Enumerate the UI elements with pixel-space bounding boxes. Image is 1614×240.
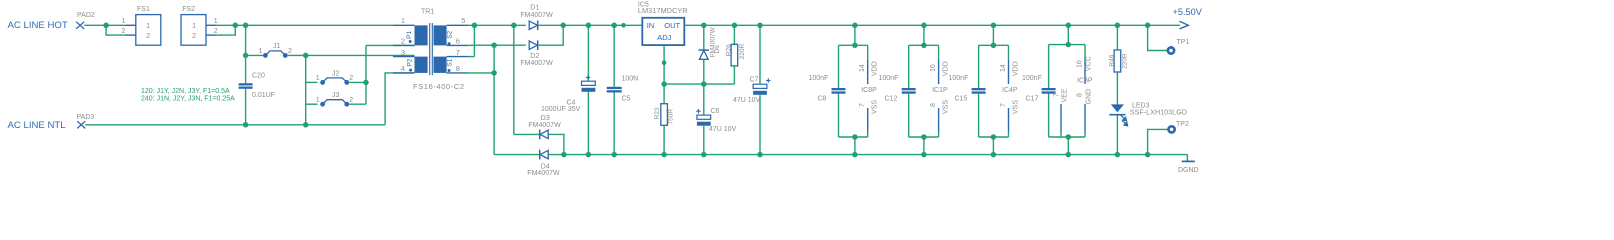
svg-text:FM4007W: FM4007W bbox=[520, 60, 553, 67]
junction node pin5/pin7 tie bbox=[472, 23, 478, 29]
wire C6 lower bbox=[703, 126, 705, 155]
wire R26 lower bbox=[733, 66, 735, 84]
svg-text:LM317MDCYR: LM317MDCYR bbox=[638, 6, 688, 15]
svg-text:TP1: TP1 bbox=[1177, 39, 1190, 46]
wire pin5 to D1 bbox=[468, 24, 526, 26]
diode D2 FM4007W bbox=[520, 40, 553, 67]
junction node D3/D4 gnd bbox=[561, 152, 567, 158]
jumper J2 bbox=[316, 70, 354, 84]
wire pin8 to AC2 bbox=[468, 72, 494, 74]
svg-text:16: 16 bbox=[930, 64, 937, 72]
wire J2 pin1 stub bbox=[306, 81, 318, 83]
svg-text:750R: 750R bbox=[667, 109, 674, 125]
wire D6 lower bbox=[703, 59, 705, 84]
wire D3 anode down bbox=[549, 134, 564, 154]
junction node C20 top bbox=[243, 23, 249, 29]
svg-text:SSF-LXH103LGD: SSF-LXH103LGD bbox=[1130, 107, 1187, 116]
svg-text:VCC: VCC bbox=[1086, 56, 1093, 71]
svg-text:100nF: 100nF bbox=[1022, 75, 1042, 82]
svg-text:0.01UF: 0.01UF bbox=[252, 92, 275, 99]
svg-text:TP2: TP2 bbox=[1176, 121, 1189, 128]
svg-text:+5.50V: +5.50V bbox=[1173, 7, 1203, 17]
resistor R26 220R bbox=[725, 43, 746, 65]
junction node C5 bottom bbox=[611, 152, 617, 158]
wire AC2 vertical bbox=[493, 45, 495, 154]
wire J1 pin2 to TR1 pin3 bbox=[288, 54, 415, 56]
svg-text:VSS: VSS bbox=[872, 100, 879, 114]
junction node TP2 tap bbox=[1145, 152, 1151, 158]
svg-text:220R: 220R bbox=[1121, 53, 1128, 69]
capacitor C4 1000UF 35V bbox=[541, 75, 595, 113]
svg-text:100nF: 100nF bbox=[949, 75, 969, 82]
svg-text:PAD2: PAD2 bbox=[77, 12, 95, 19]
wire C7 lower bbox=[759, 94, 761, 154]
junction node AC1 bbox=[511, 23, 517, 29]
capacitor C5 100N bbox=[607, 75, 639, 102]
svg-text:P1: P1 bbox=[406, 30, 413, 38]
junction node C7 top bbox=[757, 23, 763, 29]
wire vertical to NTL bbox=[305, 55, 307, 124]
wire R23 upper bbox=[663, 84, 665, 104]
svg-text:100N: 100N bbox=[622, 75, 639, 82]
diode D3 FM4007W bbox=[528, 115, 561, 139]
junction node C4 bottom bbox=[586, 152, 592, 158]
svg-text:GND: GND bbox=[1086, 89, 1093, 105]
svg-text:8: 8 bbox=[1076, 93, 1083, 97]
pad PAD3 bbox=[77, 114, 95, 128]
resistor R46 220R bbox=[1108, 50, 1128, 72]
svg-text:7: 7 bbox=[1000, 103, 1007, 107]
svg-text:C6: C6 bbox=[711, 108, 720, 115]
note 240V jumper configuration bbox=[141, 96, 235, 103]
wire TR1 pin2 row bbox=[366, 44, 415, 46]
svg-text:C17: C17 bbox=[1026, 96, 1039, 103]
svg-text:D6: D6 bbox=[714, 45, 721, 54]
wire R46 upper bbox=[1116, 25, 1118, 50]
svg-text:D2: D2 bbox=[530, 53, 539, 60]
capacitor C17 100nF with IC3P power pins bbox=[1022, 23, 1093, 158]
svg-text:PAD3: PAD3 bbox=[77, 114, 95, 121]
fuse holder FS2 bbox=[181, 6, 218, 45]
wire J2 pin2 stub bbox=[349, 81, 366, 83]
svg-text:FM4007W: FM4007W bbox=[520, 12, 553, 19]
svg-text:2: 2 bbox=[122, 28, 126, 35]
junction node NTL vertical bbox=[303, 122, 309, 128]
junction node at FS1 pin1 bbox=[103, 23, 109, 29]
svg-text:2: 2 bbox=[146, 31, 150, 40]
svg-text:1: 1 bbox=[122, 18, 126, 25]
junction node J1 feed bbox=[243, 53, 249, 59]
svg-text:100nF: 100nF bbox=[809, 75, 829, 82]
svg-text:14: 14 bbox=[1000, 64, 1007, 72]
wire D6 upper bbox=[703, 25, 705, 50]
svg-text:7: 7 bbox=[1053, 93, 1060, 97]
wire C20 upper bbox=[245, 25, 247, 83]
pad PAD2 bbox=[76, 12, 95, 29]
wire LED to gnd bbox=[1116, 116, 1118, 155]
wire C4 lower bbox=[587, 91, 589, 154]
svg-text:DGND: DGND bbox=[1178, 167, 1199, 174]
svg-text:FS16-400-C2: FS16-400-C2 bbox=[413, 82, 465, 91]
wire D4 left bbox=[494, 154, 540, 156]
svg-text:R23: R23 bbox=[654, 107, 661, 119]
junction node IC5 IN pin end bbox=[621, 23, 626, 28]
junction node D2 top bbox=[560, 23, 566, 29]
svg-text:C20: C20 bbox=[252, 72, 265, 79]
LED D LED3 SSF-LXH103LGD bbox=[1109, 103, 1187, 126]
junction node C6 gnd bbox=[701, 152, 707, 158]
svg-text:1: 1 bbox=[316, 97, 320, 104]
svg-text:1: 1 bbox=[401, 16, 405, 25]
svg-text:1: 1 bbox=[214, 18, 218, 25]
svg-text:C8: C8 bbox=[818, 96, 827, 103]
junction node LED gnd bbox=[1115, 152, 1121, 158]
svg-text:C15: C15 bbox=[955, 96, 968, 103]
svg-text:16: 16 bbox=[1076, 60, 1083, 68]
wire FS2 pin2 up to rail bbox=[216, 25, 235, 35]
svg-text:FS1: FS1 bbox=[137, 6, 150, 13]
wire C5 lower bbox=[613, 93, 615, 155]
wire C6 upper bbox=[703, 84, 705, 115]
svg-text:8: 8 bbox=[456, 64, 460, 73]
junction node D6 top bbox=[701, 23, 707, 29]
svg-text:IC3P: IC3P bbox=[1077, 78, 1093, 85]
wire TP1 bbox=[1148, 25, 1168, 50]
junction node ADJ/R23 bbox=[661, 81, 667, 87]
note 120V jumper configuration bbox=[141, 88, 230, 95]
svg-text:1: 1 bbox=[146, 21, 150, 30]
svg-text:1000UF 35V: 1000UF 35V bbox=[541, 106, 581, 113]
capacitor C7 47U 10V bbox=[733, 77, 771, 105]
svg-text:VEE: VEE bbox=[1062, 88, 1069, 102]
wire D1 cathode to plus rail bbox=[539, 24, 643, 26]
junction node C4 top bbox=[586, 23, 592, 29]
svg-text:7: 7 bbox=[456, 48, 460, 57]
svg-text:2: 2 bbox=[192, 31, 196, 40]
wire pin7 to tie bbox=[468, 56, 474, 58]
svg-text:C7: C7 bbox=[750, 77, 759, 84]
wire C20 lower bbox=[245, 89, 247, 125]
svg-text:2: 2 bbox=[288, 48, 292, 55]
wire AC NTL rail bbox=[85, 124, 385, 126]
svg-text:J1: J1 bbox=[273, 43, 281, 50]
wire ground rail bbox=[549, 154, 1188, 156]
svg-text:FM4007W: FM4007W bbox=[528, 122, 561, 129]
svg-text:4: 4 bbox=[401, 64, 405, 73]
power flag +5.50V bbox=[1173, 7, 1203, 29]
wire ADJ pin down bbox=[663, 45, 665, 84]
junction node IC5 ADJ pin end bbox=[662, 61, 667, 66]
svg-text:120: J1Y, J2N, J3Y, F1=0.5A: 120: J1Y, J2N, J3Y, F1=0.5A bbox=[141, 88, 230, 95]
ground DGND bbox=[1178, 161, 1199, 174]
wire gnd rail drop bbox=[1186, 155, 1188, 162]
junction node TP1 tap bbox=[1145, 23, 1151, 29]
svg-text:6: 6 bbox=[456, 37, 460, 46]
diode D4 FM4007W bbox=[527, 150, 560, 177]
wire D3 left bbox=[514, 133, 540, 135]
junction node R26 top bbox=[732, 23, 738, 29]
svg-text:2: 2 bbox=[401, 37, 405, 46]
junction node C7 gnd bbox=[757, 152, 763, 158]
wire FS1 pin2 feed bbox=[106, 25, 125, 35]
wire pin7 tie vertical bbox=[473, 25, 475, 56]
svg-text:2: 2 bbox=[214, 28, 218, 35]
transformer TR1 FS16-400-C2 bbox=[393, 9, 468, 92]
junction node R23 gnd bbox=[661, 152, 667, 158]
svg-text:VDD: VDD bbox=[1013, 61, 1020, 76]
wire ADJ row bbox=[664, 83, 734, 85]
wire C7 upper bbox=[759, 25, 761, 84]
svg-text:7: 7 bbox=[859, 103, 866, 107]
junction node pin3 row bbox=[303, 53, 309, 59]
svg-text:C12: C12 bbox=[885, 96, 898, 103]
svg-text:VSS: VSS bbox=[1013, 100, 1020, 114]
wire TR1 pin4 to NTL bbox=[385, 73, 414, 125]
wire PAD2 to FS1 bbox=[84, 24, 125, 26]
junction node pin8 tie bbox=[491, 70, 497, 76]
net label AC LINE HOT bbox=[8, 20, 68, 31]
wire R23 lower bbox=[663, 125, 665, 154]
wire pin6 to D2 bbox=[468, 44, 526, 46]
capacitor C15 100nF with IC4P power pins bbox=[949, 23, 1020, 158]
junction node C5 top bbox=[611, 23, 617, 29]
junction node C20 bottom bbox=[243, 122, 249, 128]
svg-text:ADJ: ADJ bbox=[657, 33, 671, 42]
svg-text:D1: D1 bbox=[530, 5, 539, 12]
junction node J2 pin2 bbox=[363, 80, 369, 86]
svg-text:IC1P: IC1P bbox=[932, 87, 948, 94]
svg-text:240: J1N, J2Y, J3N, F1=0.25A: 240: J1N, J2Y, J3N, F1=0.25A bbox=[141, 96, 235, 103]
svg-text:5: 5 bbox=[461, 16, 465, 25]
wire top rail to TR1 pin1 bbox=[235, 24, 393, 26]
junction node R46 top bbox=[1115, 23, 1121, 29]
junction node FS2 outputs bbox=[233, 23, 239, 29]
svg-text:J3: J3 bbox=[332, 92, 340, 99]
svg-text:8: 8 bbox=[930, 103, 937, 107]
svg-text:1: 1 bbox=[192, 21, 196, 30]
svg-text:220R: 220R bbox=[739, 43, 746, 59]
svg-text:FS2: FS2 bbox=[182, 6, 195, 13]
net label AC LINE NTL bbox=[8, 120, 67, 131]
wire C5 upper bbox=[613, 25, 615, 87]
wire pin2 vertical bbox=[365, 45, 367, 104]
svg-text:1: 1 bbox=[316, 75, 320, 82]
test point TP1 bbox=[1168, 39, 1190, 54]
svg-text:R26: R26 bbox=[725, 44, 732, 56]
op-amp U regulator IC5 LM317MDCYR bbox=[638, 1, 688, 45]
diode D6 FM4007W bbox=[699, 26, 722, 59]
capacitor C12 100nF with IC1P power pins bbox=[879, 23, 950, 158]
wire to J1 pin1 bbox=[246, 54, 263, 56]
test point TP2 bbox=[1169, 121, 1189, 133]
svg-text:2: 2 bbox=[349, 75, 353, 82]
capacitor C20 bbox=[239, 72, 275, 99]
wire C4 upper bbox=[587, 25, 589, 81]
svg-text:VSS: VSS bbox=[943, 100, 950, 114]
svg-text:IN: IN bbox=[647, 21, 655, 30]
svg-text:IC4P: IC4P bbox=[1002, 87, 1018, 94]
svg-text:R46: R46 bbox=[1108, 54, 1115, 66]
svg-text:47U 10V: 47U 10V bbox=[733, 97, 761, 104]
svg-text:J2: J2 bbox=[332, 70, 340, 77]
svg-text:TR1: TR1 bbox=[421, 9, 434, 16]
wire AC1 vertical bbox=[513, 25, 515, 134]
wire J3 pin2 stub bbox=[349, 103, 366, 105]
wire FS2 pin1 to rail bbox=[216, 24, 235, 26]
svg-text:P2: P2 bbox=[407, 58, 414, 66]
wire R46 to LED bbox=[1116, 72, 1118, 105]
junction node ADJ/C6 bbox=[701, 81, 707, 87]
svg-text:1: 1 bbox=[259, 48, 263, 55]
wire OUT rail bbox=[684, 24, 1180, 26]
svg-text:VDD: VDD bbox=[943, 61, 950, 76]
resistor R23 750R bbox=[654, 104, 675, 126]
wire J3 pin1 stub bbox=[306, 103, 318, 105]
junction node AC2 bbox=[491, 42, 497, 48]
svg-text:2: 2 bbox=[349, 97, 353, 104]
svg-text:100nF: 100nF bbox=[879, 75, 899, 82]
capacitor C8 100nF with IC8P power pins bbox=[809, 23, 879, 158]
svg-text:AC LINE NTL: AC LINE NTL bbox=[8, 120, 67, 131]
svg-text:3: 3 bbox=[401, 48, 405, 57]
svg-text:C5: C5 bbox=[622, 96, 631, 103]
diode D1 FM4007W bbox=[520, 5, 553, 31]
jumper J3 bbox=[316, 92, 354, 106]
svg-text:AC LINE HOT: AC LINE HOT bbox=[8, 20, 68, 31]
jumper J1 bbox=[259, 43, 293, 58]
svg-text:14: 14 bbox=[859, 64, 866, 72]
wire R26 upper bbox=[733, 25, 735, 44]
svg-text:47U 10V: 47U 10V bbox=[709, 126, 737, 133]
capacitor C6 47U 10V bbox=[696, 108, 736, 133]
svg-text:OUT: OUT bbox=[664, 21, 680, 30]
svg-text:S2: S2 bbox=[446, 30, 453, 38]
wire D2 cathode up bbox=[539, 25, 564, 45]
wire TP2 bbox=[1148, 129, 1168, 154]
svg-text:IC8P: IC8P bbox=[861, 87, 877, 94]
svg-text:FM4007W: FM4007W bbox=[527, 170, 560, 177]
svg-text:S1: S1 bbox=[446, 58, 453, 66]
svg-text:VDD: VDD bbox=[872, 61, 879, 76]
fuse holder FS1 bbox=[122, 6, 161, 45]
